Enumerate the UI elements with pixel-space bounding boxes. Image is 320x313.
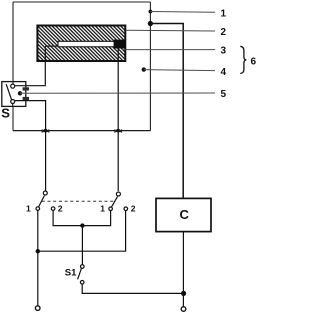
heating element right end block: [114, 40, 126, 49]
dashed mechanical coupling between switch blades: [42, 200, 115, 202]
leader line 4: [144, 70, 215, 71]
svg-text:1: 1: [26, 204, 31, 214]
leader line 3: [122, 49, 215, 51]
wire: controller C bottom lead: [182, 232, 184, 307]
node: junction of left element lead on case bottom: [44, 129, 48, 133]
svg-text:6: 6: [251, 57, 257, 68]
svg-text:3: 3: [221, 46, 227, 57]
wire: element lead left horizontal inside body: [45, 45, 58, 47]
thermostat S: enclosure box: [2, 82, 26, 107]
wire: feed from case to controller C: [150, 24, 183, 199]
selector switch right: common contact: [116, 192, 120, 196]
wire: case outline bottom edge / bus: [13, 130, 150, 132]
leader line 2: [126, 29, 215, 32]
brace grouping 3 and 4: [240, 46, 246, 73]
selector switch left: common contact: [43, 191, 47, 195]
selector switch left: contact 2: [51, 207, 55, 211]
connector mark on S lower wire: [23, 97, 29, 100]
terminal: output terminal left: [35, 306, 40, 311]
node: junction dot on link wire: [80, 223, 84, 227]
selector switch left: contact 1: [36, 207, 40, 211]
svg-text:1: 1: [100, 204, 105, 214]
node: junction dot at bottom right: [181, 291, 186, 296]
leader line 1: [150, 11, 215, 14]
wire: case outline right edge: [149, 2, 151, 131]
connector mark on S upper wire: [23, 87, 29, 90]
node: feed junction dot to controller C: [148, 21, 153, 26]
selector switch right: contact 2: [124, 207, 128, 211]
wire: link left contact2 to right contact1: [53, 211, 111, 226]
selector switch right: contact 1: [109, 207, 113, 211]
svg-text:S1: S1: [65, 268, 77, 279]
thermostat S: blade: [6, 84, 11, 100]
wire: case outline left edge upper (into switch S): [12, 2, 14, 82]
switch S1: lower contact: [80, 281, 84, 285]
wire: element left lead down to thermostat: [15, 46, 46, 86]
wire: case outline left edge lower: [12, 106, 14, 130]
wire: S1 lower lead and bottom bus to junction: [82, 284, 183, 293]
heating element slot (white channel): [58, 41, 114, 47]
svg-text:S: S: [1, 106, 10, 121]
node: callout 4 dot: [142, 67, 146, 71]
wire: link junction down to S1: [81, 226, 83, 265]
controller box C: [156, 198, 211, 231]
heating element E1: hatched body: [37, 26, 125, 62]
switch S1: upper contact: [81, 265, 85, 269]
wire: left contact1 down to terminal: [37, 211, 39, 306]
wire: element right lead down: [117, 43, 119, 191]
svg-text:1: 1: [221, 9, 227, 20]
switch S1: blade: [78, 268, 82, 279]
svg-text:4: 4: [221, 67, 227, 78]
svg-text:5: 5: [221, 89, 227, 100]
wire: bus from left wire to right contact2: [38, 211, 126, 252]
svg-text:2: 2: [131, 204, 136, 214]
connector marks at right lead case crossing: [114, 129, 122, 133]
thermostat S: lower contact: [11, 100, 15, 104]
selector switch right: blade: [112, 197, 118, 207]
leader line 5: [20, 92, 215, 94]
svg-text:C: C: [180, 207, 190, 222]
selector switch left: blade: [39, 196, 45, 207]
node: callout 5 dot inside thermostat: [18, 91, 22, 95]
thermostat S: upper contact: [11, 84, 15, 88]
wire: thermostat lower contact to switch feed: [15, 101, 46, 191]
terminal: output terminal right: [181, 307, 186, 312]
wire: appliance case outline top edge: [13, 1, 150, 3]
connector marks at left lead case crossing: [42, 129, 50, 133]
node: junction of right element lead on case bottom: [116, 129, 120, 133]
node: callout 1 junction dot on case right edge: [149, 10, 153, 14]
svg-text:2: 2: [221, 27, 227, 38]
node: junction dot on left wire: [36, 249, 40, 253]
svg-text:2: 2: [58, 204, 63, 214]
